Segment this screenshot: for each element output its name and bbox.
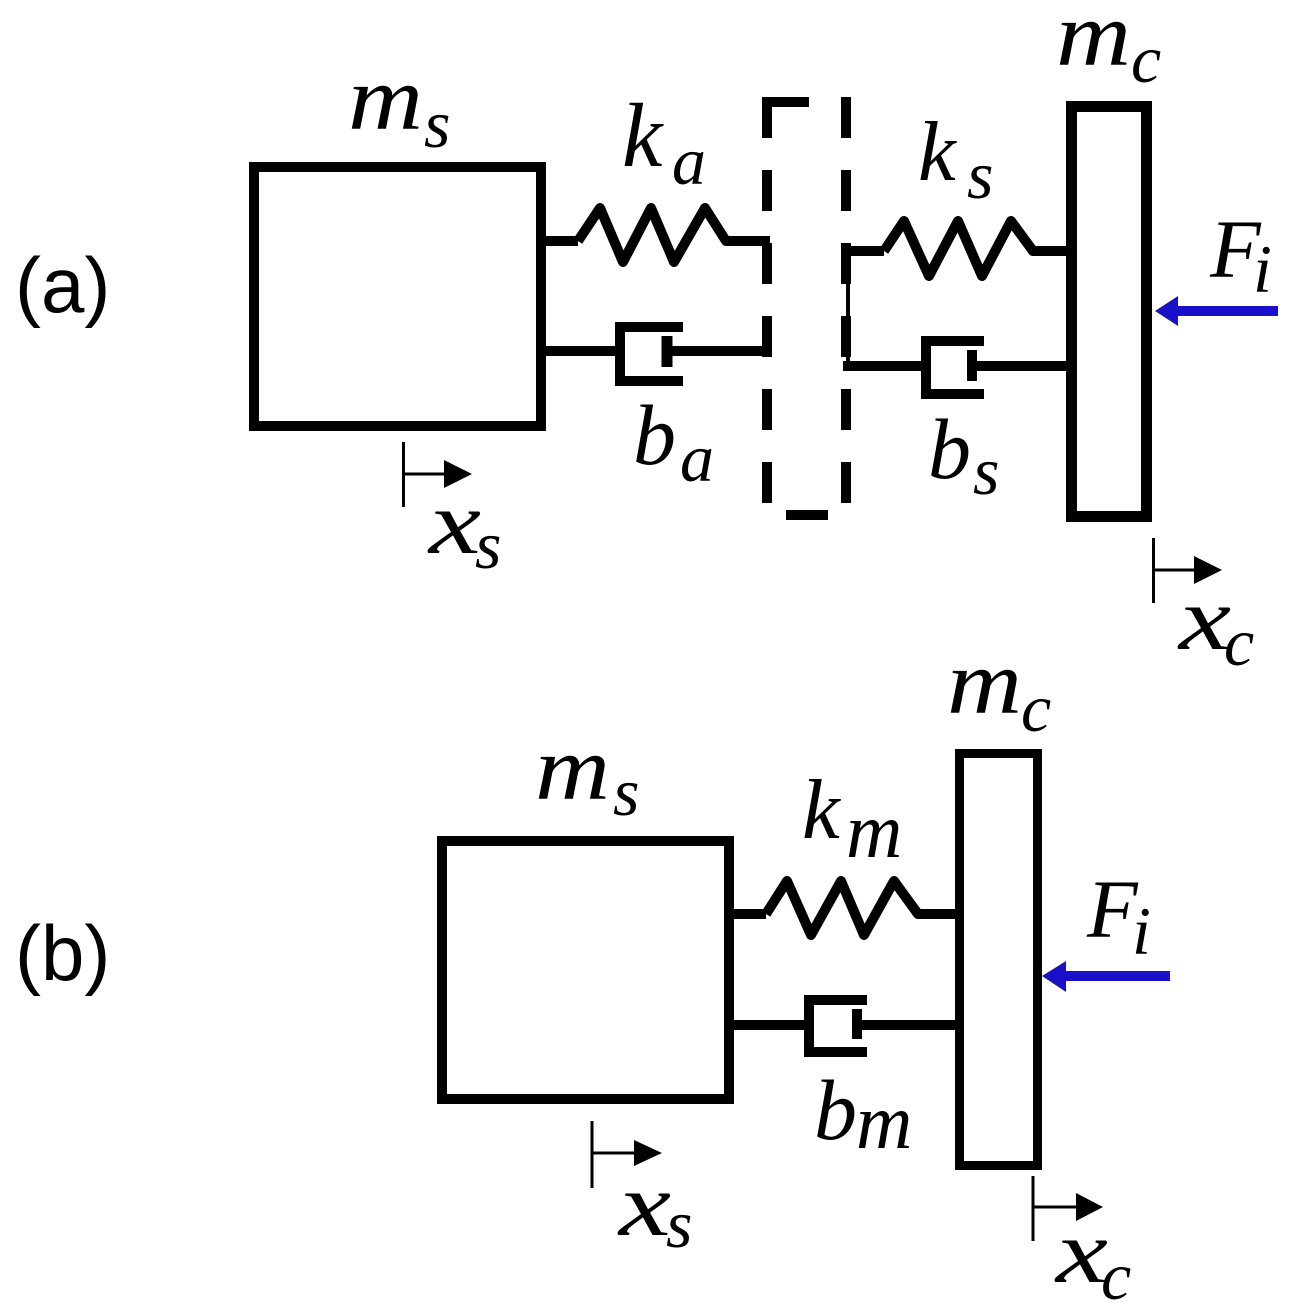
svg-text:b: b: [928, 401, 971, 497]
svg-text:s: s: [666, 1186, 692, 1262]
spring k_s: [884, 221, 1071, 276]
wire damper b_m right lead: [857, 1020, 964, 1030]
force arrow F_i (b): [1042, 961, 1170, 992]
svg-text:s: s: [967, 137, 993, 213]
svg-text:c: c: [1131, 21, 1161, 97]
dashed wall right line: [841, 97, 851, 503]
svg-text:m: m: [947, 632, 1022, 733]
node vertical link on right dashed line: [846, 251, 850, 366]
label k_a: [622, 85, 706, 199]
label F_i (b): [1086, 863, 1151, 969]
wire damper b_a right lead: [667, 346, 770, 356]
spring k_m: [766, 881, 960, 935]
svg-text:x: x: [1176, 570, 1231, 669]
svg-text:m: m: [856, 1078, 912, 1165]
svg-text:m: m: [846, 787, 902, 874]
dashed wall top dash: [762, 97, 809, 107]
label x_c (a): [1176, 570, 1254, 680]
svg-text:m: m: [535, 718, 610, 819]
damper b_m cylinder: [809, 1000, 867, 1052]
svg-text:x: x: [1053, 1203, 1108, 1302]
label x_s (b): [616, 1156, 692, 1262]
label b_m: [814, 1062, 912, 1165]
svg-text:c: c: [1101, 1238, 1131, 1309]
mass m_c (b): [960, 754, 1038, 1166]
svg-text:s: s: [973, 433, 999, 509]
wire spring k_a left lead: [541, 236, 578, 246]
label b_s: [928, 401, 999, 509]
label m_c (b): [947, 632, 1051, 746]
svg-text:a: a: [680, 420, 714, 496]
svg-text:s: s: [475, 507, 501, 583]
label x_s (a): [426, 474, 501, 583]
damper b_a cylinder: [620, 327, 683, 381]
coordinate arrow x_c (a): [1154, 538, 1223, 603]
force arrow F_i (a): [1155, 296, 1278, 326]
dashed wall left line: [762, 97, 772, 503]
coordinate arrow x_s (a): [404, 442, 473, 507]
wire damper b_s left lead: [843, 361, 926, 371]
svg-text:a: a: [672, 123, 706, 199]
label k_s: [918, 105, 993, 213]
wire spring k_s left lead: [843, 246, 884, 256]
coordinate arrow x_s (b): [592, 1121, 662, 1188]
coordinate arrow x_c (b): [1033, 1176, 1103, 1241]
damper b_a piston: [662, 336, 673, 367]
label x_c (b): [1053, 1203, 1131, 1309]
dashed wall bottom dash: [786, 510, 828, 520]
svg-text:m: m: [348, 48, 423, 149]
wire spring k_m left lead: [729, 909, 766, 919]
label m_c (a): [1056, 0, 1161, 97]
spring k_a: [578, 208, 770, 262]
wire damper b_m left lead: [729, 1020, 809, 1030]
svg-text:i: i: [1132, 893, 1151, 969]
svg-text:s: s: [613, 754, 639, 830]
label k_m: [802, 763, 902, 874]
wire damper b_a left lead: [541, 346, 620, 356]
svg-text:b: b: [633, 387, 676, 483]
svg-text:x: x: [616, 1156, 671, 1255]
mass m_s (a): [254, 167, 541, 426]
damper b_m piston: [852, 1009, 862, 1039]
mass m_c (a): [1072, 107, 1147, 517]
damper b_s cylinder: [926, 341, 984, 394]
svg-text:c: c: [1224, 604, 1254, 680]
svg-text:s: s: [424, 86, 450, 162]
label m_s (b): [535, 718, 639, 830]
label b_a: [633, 387, 714, 496]
mass m_s (b): [442, 841, 729, 1099]
svg-text:i: i: [1253, 231, 1272, 307]
label m_s (a): [348, 48, 450, 162]
svg-text:m: m: [1056, 0, 1131, 85]
wire damper b_s right lead: [972, 361, 1071, 371]
svg-text:k: k: [918, 105, 957, 199]
svg-text:(a): (a): [15, 241, 110, 329]
svg-text:(b): (b): [15, 909, 110, 997]
svg-text:c: c: [1021, 670, 1051, 746]
damper b_s piston: [967, 350, 977, 381]
svg-text:b: b: [814, 1062, 857, 1158]
label F_i (a): [1209, 203, 1272, 307]
svg-text:k: k: [622, 85, 664, 186]
svg-text:x: x: [426, 474, 481, 573]
svg-text:k: k: [802, 763, 841, 857]
